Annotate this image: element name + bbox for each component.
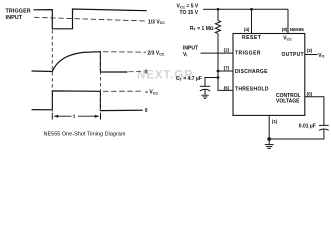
label Vcc pin name [283,36,292,42]
capacitor CT [200,86,210,91]
svg-text:1/3 VCC: 1/3 VCC [148,19,165,25]
wire CT to ground [204,89,206,95]
pin label (8) [282,27,288,32]
label DISCHARGE pin name [235,69,268,75]
svg-text:THRESHOLD: THRESHOLD [235,86,269,92]
svg-text:(5): (5) [307,91,313,96]
svg-text:(4): (4) [244,27,250,32]
junction dot cap node [217,76,220,79]
pin label (1) [272,119,278,124]
capacitor voltage waveform [32,52,128,72]
approx Vcc dashed level line [103,90,143,92]
label RT = 1 MOhm [190,26,214,32]
dashed vertical at pulse end [100,53,102,120]
0 label for output trace [145,108,148,114]
pin 4 wire [251,9,253,33]
pin label (4) [244,27,250,32]
2/3 Vcc dashed level line [103,51,146,54]
svg-text:VCC = 5 V: VCC = 5 V [177,4,199,10]
svg-text:NE555 One-Shot Timing Diagram: NE555 One-Shot Timing Diagram [44,131,126,137]
pin label (5) [307,91,313,96]
svg-text:(3): (3) [307,48,313,53]
svg-text:DISCHARGE: DISCHARGE [235,69,268,75]
svg-text:VI: VI [183,52,187,58]
label TRIGGER INPUT [6,9,31,21]
label Vcc supply [177,4,199,17]
svg-text:RT = 1 MΩ: RT = 1 MΩ [190,26,214,32]
svg-text:0: 0 [145,69,148,75]
wire discharge node to cap node [217,71,219,78]
wire cap node to CT [205,78,218,87]
pin 5 wire [305,97,324,125]
1/3 Vcc dashed level line [34,17,146,21]
caption NE555 One-Shot Timing Diagram [44,131,126,137]
trigger input waveform [34,9,147,29]
0 dashes and label for capacitor trace [129,69,148,75]
pin 8 wire [287,9,289,33]
output waveform [32,91,143,111]
svg-text:VO: VO [318,53,324,59]
wire resistor to discharge node [217,34,219,72]
svg-text:(6): (6) [224,85,230,90]
label THRESHOLD pin name [235,86,269,92]
svg-text:RESET: RESET [242,35,261,41]
junction dot rail-resistor [217,8,220,11]
svg-text:INPUT: INPUT [183,46,198,52]
wire Vcc label to rail [203,8,218,10]
label INPUT VI [183,46,198,58]
label TRIGGER pin name [235,51,261,57]
label 1/3 Vcc [148,19,165,25]
svg-text:VCC: VCC [283,36,292,42]
svg-text:VOLTAGE: VOLTAGE [276,98,300,104]
svg-text:(7): (7) [224,66,230,71]
label 0.01 uF [299,124,316,130]
svg-text:0: 0 [145,108,148,114]
wire cap C2 to ground node [269,130,324,139]
svg-text:(2): (2) [224,48,230,53]
dashed vertical at pulse start [51,30,53,120]
svg-text:(1): (1) [272,119,278,124]
svg-text:INPUT: INPUT [6,15,23,21]
t dimension arrow [53,114,99,120]
pin label (2) [224,48,230,53]
pin label (6) [224,85,230,90]
label 2/3 Vcc [148,51,165,57]
label VO [318,53,324,59]
junction dot rail pin4 [250,8,253,11]
svg-text:TRIGGER: TRIGGER [235,51,261,57]
label CONTROL VOLTAGE pin name [276,93,301,104]
resistor RT [215,21,220,34]
pin label (3) [307,48,313,53]
pin 1 wire [268,115,270,139]
svg-text:0.01 µF: 0.01 µF [299,124,316,130]
watermark NEXT.GR [137,70,194,82]
svg-text:CT = 4.7 µF: CT = 4.7 µF [176,76,202,82]
wire discharge pin 7 [218,70,233,72]
svg-text:2/3 VCC: 2/3 VCC [148,51,165,57]
junction dot ground node [267,137,271,141]
pin label (7) [224,66,230,71]
svg-text:t: t [73,114,75,120]
ground symbol pin 1 [265,139,274,148]
svg-text:TO 15 V: TO 15 V [180,10,199,16]
wire threshold pin 6 [218,78,233,91]
label NE555 [290,27,304,32]
wire trigger input pin 2 [201,52,234,54]
label CT = 4.7 uF [176,76,202,82]
ground CT [201,95,208,98]
Vcc rail wire [218,8,288,10]
IC box NE555 U1 [233,34,305,116]
svg-text:OUTPUT: OUTPUT [282,52,304,58]
label approx Vcc [145,90,158,96]
pin 3 output wire [305,54,318,56]
label OUTPUT pin name [282,52,304,58]
junction dot discharge node [217,70,220,73]
svg-text:NE555: NE555 [290,27,304,32]
label RESET pin name [242,35,261,41]
svg-text:(8): (8) [282,27,288,32]
wire rail to resistor [217,9,219,20]
svg-text:TRIGGER: TRIGGER [6,9,31,15]
capacitor C2 0.01 uF [319,125,329,130]
svg-text:≈ VCC: ≈ VCC [145,90,158,96]
